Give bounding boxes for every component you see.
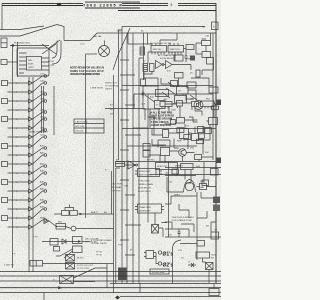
main logic frame top [122,26,205,28]
wire diagonal [33,184,45,191]
long bus line 6 [0,292,221,294]
wire diagonal [33,119,45,128]
clock phase P1 [158,251,161,254]
IC U38 dark [213,205,220,212]
IC U42 dark [118,268,127,281]
crossing wires above module [42,40,60,54]
IC U24 [171,120,176,125]
boundary rail [53,86,55,135]
connector pin P2-1 [54,247,60,252]
transistor Q3 [184,180,196,193]
wire stub [44,284,214,300]
scan grain overlay [0,0,221,300]
transistor Q1 [194,101,203,110]
crystal Y1 circle [99,46,110,57]
node A3D [44,183,47,186]
IC U40 [138,169,160,177]
zone tick diamond [57,3,62,7]
connector pin P1-8 [2,144,8,149]
bus rail V3 [132,33,134,283]
inverter gate G2 [166,61,173,69]
capacitor C14 [142,90,145,98]
wire frame to U14 [202,64,214,75]
long bus line 4 [110,283,221,285]
connector pin P1-14 [2,198,8,203]
node C5D [44,93,47,96]
long rule A [116,161,221,163]
IC U16 [177,87,189,95]
wire [8,100,29,102]
zone diamond bottom [115,296,120,300]
frame second rule [127,32,216,34]
trimmer R30 [62,211,70,216]
wire corner arc [173,240,182,283]
wire diagonal [33,202,45,209]
IC U43 [197,241,205,247]
wire module risers [52,41,61,65]
wire [8,226,29,228]
resistor R12 [116,162,125,167]
long bus line 3 [0,280,221,282]
bus tick marks [120,60,141,255]
node C0D [44,136,47,139]
node C4D [44,100,47,103]
capacitor C9 [178,229,181,237]
wire mesh centre right [148,94,214,223]
IC U29 [163,130,169,138]
right edge rail [215,11,217,284]
long bus line 2 [0,275,221,277]
bus arrow marker [58,286,63,289]
wire [8,199,29,201]
right inner rail [212,33,214,160]
node C1D [44,129,47,132]
wire with arrow [10,45,49,47]
wire mesh mid right [144,72,213,105]
node A6D [44,154,47,157]
connector pin J1-2 [1,60,7,65]
connector pin P1-12 [2,180,8,185]
label box [150,269,169,274]
vertical feed V5 [168,162,170,238]
IC U10 [151,46,167,53]
IC U12 [202,41,211,46]
wire to video circuit [57,25,122,41]
wire column join [139,58,152,74]
node A0D [44,208,47,211]
resistor R15 [66,255,75,262]
wire [165,175,196,177]
IC U17 [175,96,187,104]
IC U51 dark [190,56,195,61]
connector pin P1-5 [2,117,8,122]
vertical tap [106,264,108,288]
wire diag [213,100,216,106]
wire diagonal [33,148,45,155]
rail V4b [143,33,145,80]
wire diagonal [33,76,45,83]
node A5D [44,165,47,168]
IC U13 [202,52,211,58]
wire [8,109,29,111]
wire diagonal [33,173,45,182]
second rule right [118,10,216,12]
wire mesh fill A [148,94,216,162]
IC U15 [175,73,184,79]
IC U11 [168,46,184,53]
bus rail V2 [126,33,128,283]
IC U1 [27,57,42,71]
IC U54 [202,180,209,186]
IC U50 [174,55,183,61]
wire [8,136,29,138]
wire [8,145,29,147]
IC U28d [212,106,219,110]
wire [105,109,145,121]
resistor R16 [66,263,75,270]
pot R35 [56,224,66,230]
wire fan [56,249,73,258]
wire diagonal riser [113,28,130,70]
wire [8,118,29,120]
connector pin J1-1 [1,38,7,48]
IC U30 [180,129,189,139]
wire [165,229,189,237]
resistor R17 [60,276,74,284]
wire right lower mesh [165,177,216,232]
frame rule mid A [122,85,213,87]
bus rail V1 [121,27,123,284]
IC U33 [195,155,202,160]
border right corner drop [215,3,217,10]
node RWD [44,219,47,222]
IC U56 dark [216,100,221,106]
node A4D [44,172,47,175]
gate G3 [128,161,136,169]
IC U20 [160,102,172,107]
wire diagonal [33,94,45,101]
wire diagonal [33,83,45,92]
inner rail x118 [119,30,123,160]
wire [8,190,29,192]
capacitor C12 [206,263,214,270]
connector pin P1-10 [2,162,8,167]
resistor R6 [143,64,148,72]
transistor Q2 [179,149,187,157]
IC U31 [192,134,199,141]
wire [8,91,29,93]
wire lower mesh [165,151,213,163]
wire [155,213,167,237]
centre vertical rail [85,54,87,218]
wire right column [196,33,211,54]
paper background [0,0,221,300]
resistor R8 [171,81,178,87]
node C6D [44,82,47,85]
wire top of centre rail [86,53,98,55]
wire trimmer tap [65,205,74,211]
IC U37 dark [213,197,220,204]
long bus line 1 [0,271,221,273]
IC U28b [184,135,191,140]
IC U58 [187,82,196,88]
trimmer R31 [70,211,78,216]
wire [8,172,29,174]
diode CR4 [62,239,66,244]
vertical feed V6 [203,162,205,184]
wire diagonal [33,220,45,227]
IC U26c [199,134,205,139]
wire [8,181,29,183]
clock phase P2 [158,262,161,265]
IC U21 [177,101,183,107]
wire [197,187,217,261]
misc labels right half [12,31,217,260]
wire [8,163,29,165]
transformer T1 [152,225,159,234]
relay K1 [30,261,43,267]
IC U35 [181,164,194,170]
wire bottom row [42,241,78,243]
IC U52 dark [216,158,222,164]
mid bus rails [112,75,121,293]
IC U25 [177,118,185,124]
IC U36 [200,184,207,190]
wire diagonal [33,101,45,110]
resistor R53 [141,79,146,86]
IC U59 pair [143,151,150,158]
node C3D [44,111,47,114]
node A2D [44,190,47,193]
wire long horiz [133,109,163,135]
IC U49 [186,45,194,50]
inverter gate G1 [156,61,163,69]
pin stubs U1 left [19,53,27,73]
IC U57 [156,90,169,97]
IC U32 [161,148,170,156]
diode CR3 [188,263,196,267]
left bus double rail [29,77,33,272]
connector pin P1-3 [2,99,8,104]
wire monitor line [54,213,114,215]
wire bus bottom left [43,263,114,265]
wire diagonal [33,155,45,164]
IC U14 [207,58,214,65]
border left edge [1,3,3,30]
oscillator X1 [146,251,154,259]
bus rail V4 [138,58,140,283]
IC U22 [192,102,199,107]
wire [8,208,29,210]
IC U19 [209,87,218,93]
wire diagonal [33,137,45,146]
title underline [85,2,140,8]
address rail pair upper [42,86,44,133]
wire gate outputs [164,65,191,71]
IC U23 [201,101,215,107]
sheet ref box b [212,22,219,30]
pin stub rows B [135,106,211,210]
bottom right IC U47 [209,289,219,296]
node A1D [44,201,47,204]
connector pin P1-0 [2,81,8,86]
IC U39 [211,232,219,239]
gate bottom left [44,219,57,228]
IC U26b [205,128,212,134]
wire crystal to top [104,41,106,46]
wire bus upper left [0,25,57,37]
node C2D [44,118,47,121]
wire diagonal [33,166,45,173]
long bus line 5 [0,287,221,289]
IC U55 [50,239,58,246]
connector pin P1-16 [2,216,8,221]
resistor R10 [172,169,179,174]
wire diagonal [33,191,45,200]
long rule C [165,236,221,238]
node A7D [44,147,47,150]
resistor R52 [196,70,200,77]
IC U44 [196,252,210,258]
wire diagonal [33,209,45,218]
wire [7,61,17,63]
long rule C2 [150,174,221,176]
long rule mid D [127,145,197,147]
IC U28 [177,128,184,133]
IC U53 [211,169,219,176]
pin stub rows [152,43,181,55]
reference table box [74,119,104,133]
frame rule mid B [134,94,213,109]
wire [8,127,29,129]
capacitor C4 [185,50,188,62]
diode CR2 [71,226,76,231]
wire diagonal [33,112,45,119]
pin stubs U1 right [42,58,50,70]
wire fan out [74,268,108,282]
IC U28c [197,139,204,144]
IC U45 [73,237,83,244]
wire stair to logic [122,33,152,44]
node C7D [44,75,47,78]
long bus line 7 [120,296,221,298]
wire [8,82,29,84]
wire [8,217,29,219]
IC U27 [209,118,218,125]
wire mesh upper right [148,33,187,64]
wire [203,246,217,283]
wire mesh fill C [143,78,198,183]
IC U26 [198,127,205,133]
IC U46 [73,246,83,253]
IC U18 [155,101,166,109]
long rule mid C [122,128,216,130]
wire mesh fill B diagonals [145,82,197,102]
IC U34 [156,163,178,170]
wire diagonal [33,130,45,137]
resistor R5 [140,47,145,55]
module box M1 [17,48,49,76]
IC U41 [138,204,162,213]
top border double rule [2,3,216,5]
left vertical rail A [13,42,18,268]
resistor R7 [150,64,155,72]
wire [8,154,29,156]
long rule B [165,167,221,169]
